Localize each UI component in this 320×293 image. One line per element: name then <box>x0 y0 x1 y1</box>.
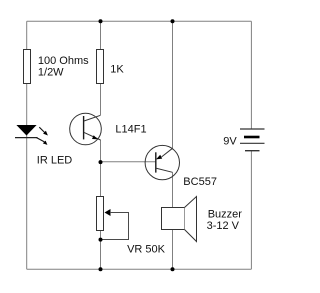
wire third branch upper <box>172 21 174 148</box>
resistor R2 1K <box>97 50 104 84</box>
junction node wiper return <box>99 238 103 242</box>
junction node bottom-right <box>171 267 175 271</box>
junction node top-left <box>99 19 103 23</box>
wire left branch <box>26 21 28 269</box>
svg-text:L14F1: L14F1 <box>115 124 146 136</box>
svg-text:3-12 V: 3-12 V <box>207 220 240 232</box>
junction node top-right <box>171 19 175 23</box>
svg-text:IR LED: IR LED <box>37 155 73 167</box>
wire second branch lower <box>100 140 102 269</box>
LED emission arrow 1 <box>39 127 45 132</box>
buzzer BZ1 <box>162 208 185 230</box>
svg-text:9V: 9V <box>223 135 237 147</box>
svg-text:BC557: BC557 <box>183 176 217 188</box>
wire right battery branch upper <box>250 21 252 129</box>
LED emission arrow 2 <box>37 138 45 142</box>
transistor Q2 BC557 (PNP) <box>145 145 179 179</box>
resistor R1 100 Ohms 1/2W <box>24 50 31 84</box>
IR LED D1 <box>16 125 36 136</box>
junction node base tee <box>99 160 103 164</box>
svg-text:VR 50K: VR 50K <box>127 244 166 256</box>
wire right battery branch lower <box>250 151 252 270</box>
junction node bottom-left <box>99 267 103 271</box>
potentiometer VR1 50K <box>97 197 104 231</box>
wire top rail <box>27 20 252 22</box>
battery B1 9V <box>240 128 265 130</box>
wire base of Q2 <box>101 161 156 163</box>
wire second branch upper <box>100 21 102 115</box>
phototransistor Q1 L14F1 <box>70 113 102 145</box>
svg-text:Buzzer: Buzzer <box>208 208 243 220</box>
svg-text:1/2W: 1/2W <box>38 66 64 78</box>
wire bottom rail <box>27 268 252 270</box>
wiper arrow of VR1 <box>105 209 111 216</box>
wire third branch lower <box>172 172 174 269</box>
svg-text:1K: 1K <box>110 63 124 75</box>
svg-text:100 Ohms: 100 Ohms <box>38 55 89 67</box>
